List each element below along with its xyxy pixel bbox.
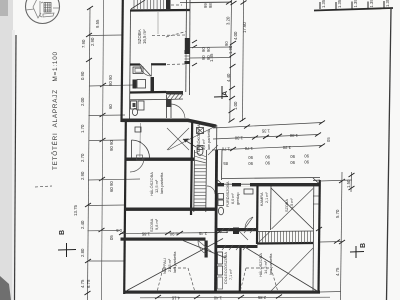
svg-text:4: 4 bbox=[138, 141, 142, 143]
svg-text:2,1 m²: 2,1 m² bbox=[265, 192, 269, 203]
svg-text:lam.parketta: lam.parketta bbox=[207, 128, 211, 150]
svg-text:1.70: 1.70 bbox=[80, 124, 85, 133]
svg-text:1.35: 1.35 bbox=[385, 0, 390, 7]
chimney pair texts bbox=[223, 154, 309, 167]
window right wall bbox=[313, 195, 320, 197]
svg-text:0.90: 0.90 bbox=[169, 232, 178, 237]
bedroom3 label bbox=[258, 253, 273, 277]
scan left edge shading bbox=[0, 0, 13, 300]
svg-text:SZOBA: SZOBA bbox=[285, 199, 289, 212]
svg-text:90: 90 bbox=[304, 154, 309, 159]
bathroom door leaf + swing bbox=[140, 64, 151, 76]
chamfer thick wall to lower wing corner bbox=[188, 119, 217, 129]
stair direction arrow bbox=[183, 139, 196, 147]
straight treads bbox=[194, 165, 207, 209]
svg-text:1.70: 1.70 bbox=[221, 147, 230, 152]
svg-text:2.70: 2.70 bbox=[80, 153, 85, 162]
bedroom3 diagonals bbox=[244, 247, 318, 292]
window jamb blocks on east wall bbox=[185, 50, 190, 54]
svg-text:TETŐTÉRI ALAPRAJZ M=1:100: TETŐTÉRI ALAPRAJZ M=1:100 bbox=[50, 51, 59, 170]
svg-text:2.80: 2.80 bbox=[80, 248, 85, 257]
left wing outer wall lower bbox=[124, 122, 126, 294]
page border left line bbox=[15, 35, 17, 300]
door arc east room bbox=[171, 104, 185, 118]
left dimension chain line bbox=[88, 8, 91, 300]
left chain extension stubs bbox=[88, 35, 141, 261]
svg-text:90: 90 bbox=[109, 146, 114, 151]
svg-text:lam.parketta: lam.parketta bbox=[268, 253, 273, 275]
stair diagonal bbox=[131, 0, 145, 9]
terrace edge double line bbox=[222, 178, 320, 179]
wc fixtures bbox=[131, 101, 137, 109]
svg-text:90: 90 bbox=[224, 41, 229, 46]
kamra label bbox=[260, 192, 269, 206]
svg-text:B: B bbox=[360, 243, 367, 248]
svg-text:90: 90 bbox=[265, 161, 270, 166]
corridor divider line bbox=[139, 123, 141, 157]
halo2 label bbox=[149, 218, 159, 232]
corridor door arc bbox=[132, 140, 150, 158]
top dim line bbox=[180, 1, 232, 4]
svg-text:1.35: 1.35 bbox=[353, 0, 358, 8]
svg-text:90: 90 bbox=[248, 155, 253, 160]
dashed soffit line top bbox=[171, 4, 182, 6]
left extension line bbox=[102, 0, 104, 300]
right outer wall double bbox=[312, 186, 315, 291]
svg-text:4.75: 4.75 bbox=[335, 267, 340, 276]
bathroom2 fixtures bbox=[218, 194, 224, 200]
svg-text:4.15: 4.15 bbox=[171, 296, 180, 300]
room1 label bbox=[137, 29, 147, 44]
svg-text:6.75: 6.75 bbox=[86, 279, 91, 288]
terrace dim lines bbox=[213, 123, 322, 129]
svg-text:2.85: 2.85 bbox=[257, 295, 266, 300]
bottom dim chain bbox=[140, 296, 330, 299]
corridor wall (upper wing bottom) bbox=[122, 119, 189, 123]
svg-text:60: 60 bbox=[108, 104, 113, 109]
bathroom bottom wall bbox=[130, 91, 166, 94]
svg-text:3.20: 3.20 bbox=[226, 16, 231, 25]
window tick marks east bbox=[192, 40, 197, 66]
left outer wall bbox=[122, 0, 123, 122]
svg-text:1.70: 1.70 bbox=[244, 146, 253, 151]
svg-text:90: 90 bbox=[248, 161, 253, 166]
dashed soffit line over bathroom bbox=[167, 63, 185, 66]
svg-text:2.00: 2.00 bbox=[80, 97, 85, 106]
svg-text:9,8 m²: 9,8 m² bbox=[154, 218, 159, 230]
szoba4 diagonals bbox=[271, 188, 313, 229]
dormer trapezoid left (dashed) bbox=[157, 268, 195, 292]
living room top wall bbox=[121, 238, 206, 241]
svg-text:2.90: 2.90 bbox=[90, 37, 95, 46]
top strip tiny labels bbox=[321, 0, 390, 8]
svg-text:90: 90 bbox=[290, 154, 295, 159]
living room big diagonals bbox=[127, 239, 223, 291]
svg-text:60: 60 bbox=[109, 187, 114, 192]
small window in that wall bbox=[137, 155, 143, 160]
wall bath2/kamra bbox=[256, 186, 259, 244]
halo1 door arc bbox=[130, 158, 144, 172]
svg-text:1.50: 1.50 bbox=[346, 179, 351, 188]
top stair treads bbox=[134, 0, 164, 9]
top-right title strip line bbox=[314, 8, 393, 11]
svg-text:98: 98 bbox=[208, 3, 213, 8]
logo house sketch bbox=[26, 0, 59, 18]
dormer trapezoid right (dashed) bbox=[240, 268, 278, 292]
svg-text:0.5: 0.5 bbox=[116, 228, 122, 233]
svg-text:85: 85 bbox=[223, 161, 228, 166]
wall kitchen/bedroom3 bbox=[239, 247, 242, 292]
east room wall verticals bbox=[166, 95, 168, 118]
svg-text:1.30: 1.30 bbox=[234, 136, 243, 141]
dashed slope diag bbox=[166, 32, 186, 38]
tick on right wall bbox=[316, 227, 322, 231]
wc top wall bbox=[130, 99, 166, 101]
svg-text:90: 90 bbox=[290, 160, 295, 165]
svg-text:lam.parketta: lam.parketta bbox=[159, 172, 164, 194]
svg-text:90: 90 bbox=[108, 75, 113, 80]
wall above lower stairs bbox=[216, 228, 258, 231]
svg-text:05: 05 bbox=[326, 137, 331, 142]
svg-text:1.35: 1.35 bbox=[369, 0, 374, 8]
diagonal near stair top bbox=[208, 145, 218, 155]
svg-text:greslap: greslap bbox=[236, 193, 240, 205]
left chain ticks bbox=[85, 6, 107, 295]
svg-text:3.30: 3.30 bbox=[282, 145, 291, 150]
svg-text:4.40: 4.40 bbox=[226, 73, 231, 82]
corner braces bbox=[216, 179, 222, 185]
svg-text:1.35: 1.35 bbox=[321, 0, 326, 8]
svg-text:7,1 m²: 7,1 m² bbox=[229, 269, 233, 280]
svg-text:90: 90 bbox=[201, 55, 206, 60]
right page border bbox=[387, 9, 392, 300]
laundry room fixture bbox=[197, 128, 204, 134]
svg-text:2.40: 2.40 bbox=[80, 220, 85, 229]
svg-text:05: 05 bbox=[109, 235, 114, 240]
wall kamra/szoba4 bbox=[270, 186, 272, 230]
right wing top wall bbox=[216, 183, 320, 186]
svg-text:KAMRA: KAMRA bbox=[260, 192, 264, 206]
left wall inner face bbox=[130, 10, 131, 122]
bottom outer wall bbox=[124, 291, 320, 294]
dim row above living room bbox=[120, 233, 228, 234]
bath east jamb bbox=[151, 77, 155, 92]
svg-text:90: 90 bbox=[265, 155, 270, 160]
svg-text:17.60: 17.60 bbox=[242, 22, 247, 33]
door X at living room top right bbox=[198, 241, 213, 254]
bathroom2 label bbox=[226, 181, 240, 207]
svg-text:2.45: 2.45 bbox=[198, 231, 207, 236]
svg-text:1.35: 1.35 bbox=[261, 129, 270, 134]
lower stairs bbox=[257, 230, 313, 233]
door jamb blocks bbox=[233, 228, 239, 235]
room 1 (szoba) east wall double bbox=[185, 0, 188, 50]
bathroom fixtures bbox=[133, 67, 143, 74]
stair bottom wall bbox=[130, 9, 190, 12]
bathroom2 door bbox=[245, 217, 253, 228]
left chain dim numbers (rotated) bbox=[80, 19, 114, 288]
wc above stairs bbox=[197, 147, 203, 156]
svg-text:1.85: 1.85 bbox=[141, 232, 150, 237]
svg-text:13.75: 13.75 bbox=[73, 204, 78, 216]
halo1 room label bbox=[149, 172, 164, 196]
svg-text:1.40: 1.40 bbox=[213, 296, 222, 300]
right dim stub lines bbox=[190, 2, 232, 58]
laundry label bbox=[196, 124, 211, 152]
svg-text:1.00: 1.00 bbox=[233, 101, 238, 110]
architect logo circle bbox=[26, 0, 60, 24]
kitchen column labels bbox=[223, 252, 233, 284]
svg-text:7.90: 7.90 bbox=[81, 39, 86, 48]
szoba4 label bbox=[285, 198, 294, 212]
bathroom top wall with door gap bbox=[130, 63, 140, 65]
svg-text:4.75: 4.75 bbox=[80, 279, 85, 288]
wall under lower stairs left part with hatch bbox=[216, 245, 258, 248]
svg-text:5.70: 5.70 bbox=[335, 209, 340, 218]
winder treads bbox=[194, 152, 206, 163]
svg-text:90: 90 bbox=[108, 81, 113, 86]
wall between corridor and halo1 bbox=[126, 158, 195, 161]
svg-text:2.90: 2.90 bbox=[80, 171, 85, 180]
svg-text:4,5 m²: 4,5 m² bbox=[290, 198, 294, 209]
window sill lines bbox=[185, 55, 191, 57]
svg-text:90: 90 bbox=[109, 140, 114, 145]
svg-text:9.55: 9.55 bbox=[95, 19, 100, 28]
svg-text:99: 99 bbox=[203, 3, 208, 8]
wall stub left of kitchen door bbox=[205, 241, 208, 258]
hatched wall stub right of bathroom bbox=[166, 91, 183, 95]
dashed ceiling-height line bbox=[152, 34, 186, 37]
svg-text:1.30: 1.30 bbox=[289, 133, 298, 138]
spine inner line bbox=[221, 150, 224, 180]
svg-text:4.00: 4.00 bbox=[233, 31, 238, 40]
stair right return bbox=[166, 0, 171, 9]
svg-text:FÜRDőSZOBA: FÜRDőSZOBA bbox=[226, 181, 230, 207]
corridor door symbol box bbox=[135, 127, 141, 132]
wall halo1/halo2 bbox=[125, 208, 215, 211]
hatched jamb bbox=[166, 99, 172, 107]
svg-text:lam.parketta: lam.parketta bbox=[172, 251, 177, 273]
kitchen fixtures along wall bbox=[218, 252, 223, 264]
svg-text:16,5 m²: 16,5 m² bbox=[142, 29, 147, 44]
svg-text:1.35: 1.35 bbox=[337, 0, 342, 8]
svg-text:6,0 m²: 6,0 m² bbox=[231, 193, 235, 204]
svg-text:B: B bbox=[59, 230, 66, 235]
stair diagonal lower bbox=[258, 232, 270, 244]
stairwell void X bbox=[167, 128, 189, 150]
svg-text:90: 90 bbox=[109, 181, 114, 186]
section trace stub (dash-dot) bbox=[35, 186, 52, 187]
svg-text:DOLGOZÓSZOBA: DOLGOZÓSZOBA bbox=[223, 252, 228, 284]
living room label bbox=[162, 251, 177, 274]
svg-text:90: 90 bbox=[304, 160, 309, 165]
svg-text:A: A bbox=[222, 91, 229, 96]
svg-text:0.90: 0.90 bbox=[80, 71, 85, 80]
